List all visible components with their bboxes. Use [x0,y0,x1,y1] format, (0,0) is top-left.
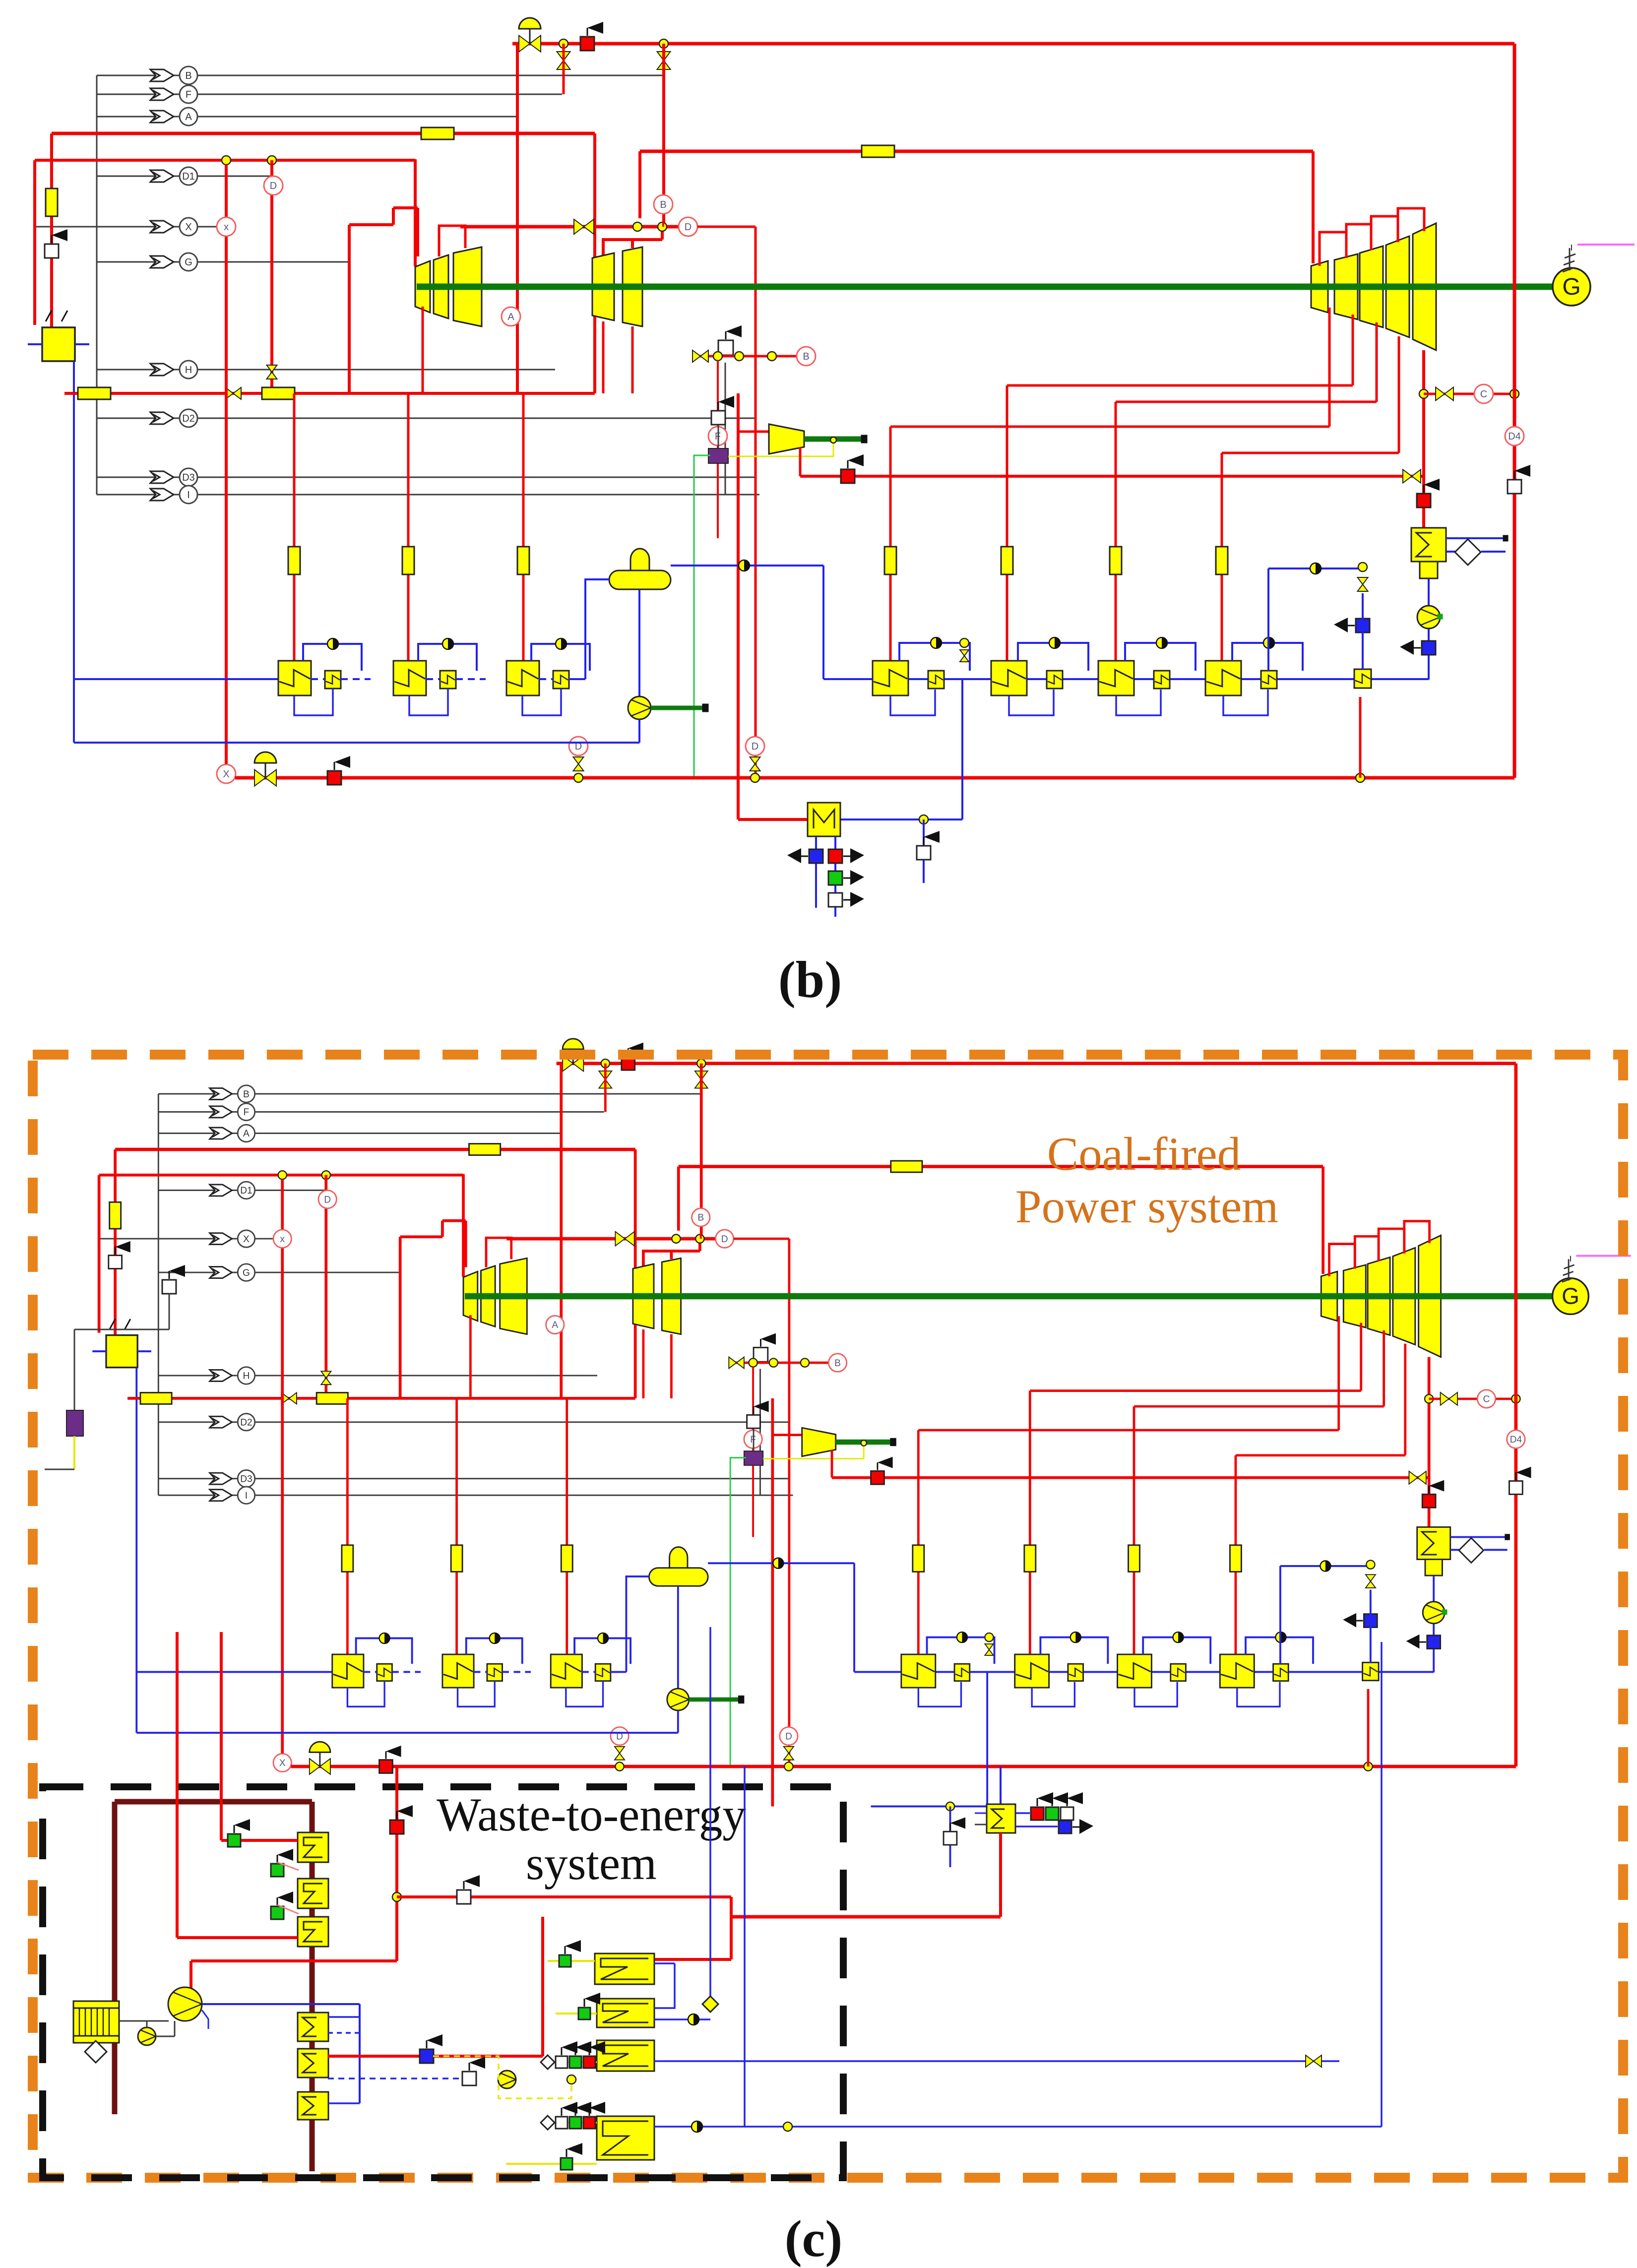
green square feed [228,1834,241,1847]
WtE superheater 3 [298,1917,328,1947]
WtE grey link 3 [156,2036,175,2037]
diamond bank4 [541,2116,555,2130]
green square mixer [828,871,842,885]
sh drain red 2 [277,1905,299,1914]
blue square WtE [420,2049,434,2063]
WtE blue drum line [202,2003,360,2005]
figure b: coal-fired power plant schematic [28,18,1635,883]
sensor blue 1405 [692,2121,702,2132]
WtE red y3950 [654,1958,731,1961]
grey wire c3 [74,1329,75,1410]
WtE blue stub A2 [328,2032,360,2034]
WtE blue stub A1 [328,2016,360,2018]
WtE evaporator C [298,2092,328,2120]
blue return riser x2785 [1381,1642,1383,2127]
HRSG bank 2 [597,1999,654,2027]
bank4 yellow low [506,2163,597,2165]
WtE feed A [176,1632,179,1938]
grey wire c2 [74,1329,169,1330]
green square bank4 [569,2117,581,2129]
bank riser blue 1 [709,1627,711,2004]
sigma blue feed [1000,1766,1002,1804]
WtE red y3824 [397,1895,731,1898]
blue square mixer [809,849,823,863]
bank3 yellow feed [548,2061,597,2063]
sigma red drain [999,1833,1002,1917]
WtE circulation drum [168,1987,202,2021]
bank riser blue 2 [744,1766,746,2127]
transmitter purple [66,1410,83,1436]
green square sigma [1046,1807,1059,1820]
district heater sigma [987,1804,1015,1833]
red square bank3 [583,2056,595,2068]
figure c: coal-fired plant reused [92,1039,1631,1867]
mixer M glyph [814,810,834,828]
svg-text:system: system [526,1837,657,1890]
WtE superheater 1 [298,1832,328,1862]
svg-text:Power system: Power system [1015,1180,1278,1233]
long blue y4287 [654,2126,1382,2128]
sigma stub l1 [975,1813,987,1814]
flue gas duct top [115,1799,312,1805]
WtE feed B [220,1632,223,1840]
WtE evaporator A [298,2013,328,2041]
node 800-3824 [392,1892,401,1901]
grey wire c4 [45,1469,74,1470]
bank1 yellow feed [548,1960,595,1962]
air cooled condenser [73,2001,119,2043]
WtE red riser x1094 [541,1917,544,2056]
long blue y4155 [654,2060,1339,2062]
WtE red y3864 [731,1915,1001,1919]
waste-to-energy frame (black dashed) [43,1787,843,2178]
flue gas duct down [112,1802,118,2114]
WtE dashed yellow [433,2056,571,2098]
WtE feed A horiz [177,1936,298,1939]
svg-text:(c): (c) [785,2209,843,2268]
white square WtE [457,1890,471,1904]
red square sigma [1031,1807,1044,1820]
green square bank1 [559,1955,571,1967]
sigma blue right 2 [1015,1826,1058,1827]
red square WtE [390,1820,404,1834]
blue valve pair [1306,2055,1314,2067]
WtE red y3953 [191,1959,397,1962]
HRSG bank 3 [597,2040,654,2071]
WtE drum curl [202,2010,208,2029]
white square c-left [162,1280,176,1294]
sigma stub l2 [975,1824,987,1826]
diamond node riser [702,1996,718,2012]
red square mixer [828,849,842,863]
mixer blue drop 1 [815,836,817,908]
grey wire c1 [169,1294,170,1329]
white square wte2 [462,2072,476,2085]
white square bank4 [556,2117,567,2129]
yellow wire c [73,1436,75,1469]
svg-text:(b): (b) [778,950,842,1008]
WtE superheater 2 [298,1879,328,1908]
node blue 1588 [783,2122,792,2131]
green square bank3 [569,2056,581,2068]
WtE feed B horiz [221,1839,298,1842]
WtE red drop x800 [395,1766,398,1961]
WtE evaporator B [298,2049,328,2078]
WtE red drop pump [189,1961,192,1990]
sh drain red 1 [277,1862,299,1870]
diamond bank3 [541,2055,555,2069]
bank blue h1 [654,1962,675,1964]
mixer blue drop 2 [834,836,836,917]
green square bank2 [578,2008,590,2019]
flue gas duct column [310,1802,315,2171]
bank2 yellow feed [556,2013,597,2015]
WtE blue stub C [328,2102,360,2104]
bank blue h2 [654,2018,710,2020]
green square sh12 [271,1864,284,1877]
svg-text:Waste-to-energy: Waste-to-energy [437,1788,746,1841]
sigma blue right 1 [1015,1812,1030,1814]
white square bank3 [556,2056,567,2068]
mixer M [808,803,840,836]
WtE dashed blue [328,2078,461,2079]
HRSG bank 1 [595,1953,654,1984]
node wte [567,2075,576,2084]
WtE blue riser x725 [359,2004,361,2103]
WtE red riser x1474 [730,1897,733,1959]
WtE pump small2 [498,2071,516,2088]
HRSG bank 4 [597,2116,654,2160]
bank blue h1b [654,1963,675,2008]
bank4 yellow feed [548,2122,597,2124]
WtE grey link 2 [146,2021,148,2027]
svg-text:Coal-fired: Coal-fired [1047,1128,1241,1180]
bank sensor [688,2014,699,2025]
coal-fired frame (orange dashed) [33,1055,1623,2178]
green square sh23 [271,1906,284,1919]
WtE small pump [138,2027,156,2045]
condenser diamond [85,2041,107,2063]
white square mixer [828,893,842,907]
mixer inlet red [738,818,808,821]
red square bank4 [583,2117,595,2129]
green square bank4b [561,2158,572,2170]
WtE grey link 4 [174,2021,176,2036]
blue square sigma [1059,1821,1071,1833]
WtE red y4145 [328,2055,543,2058]
WtE grey link 1 [119,2020,169,2022]
white square sigma [1061,1807,1073,1820]
